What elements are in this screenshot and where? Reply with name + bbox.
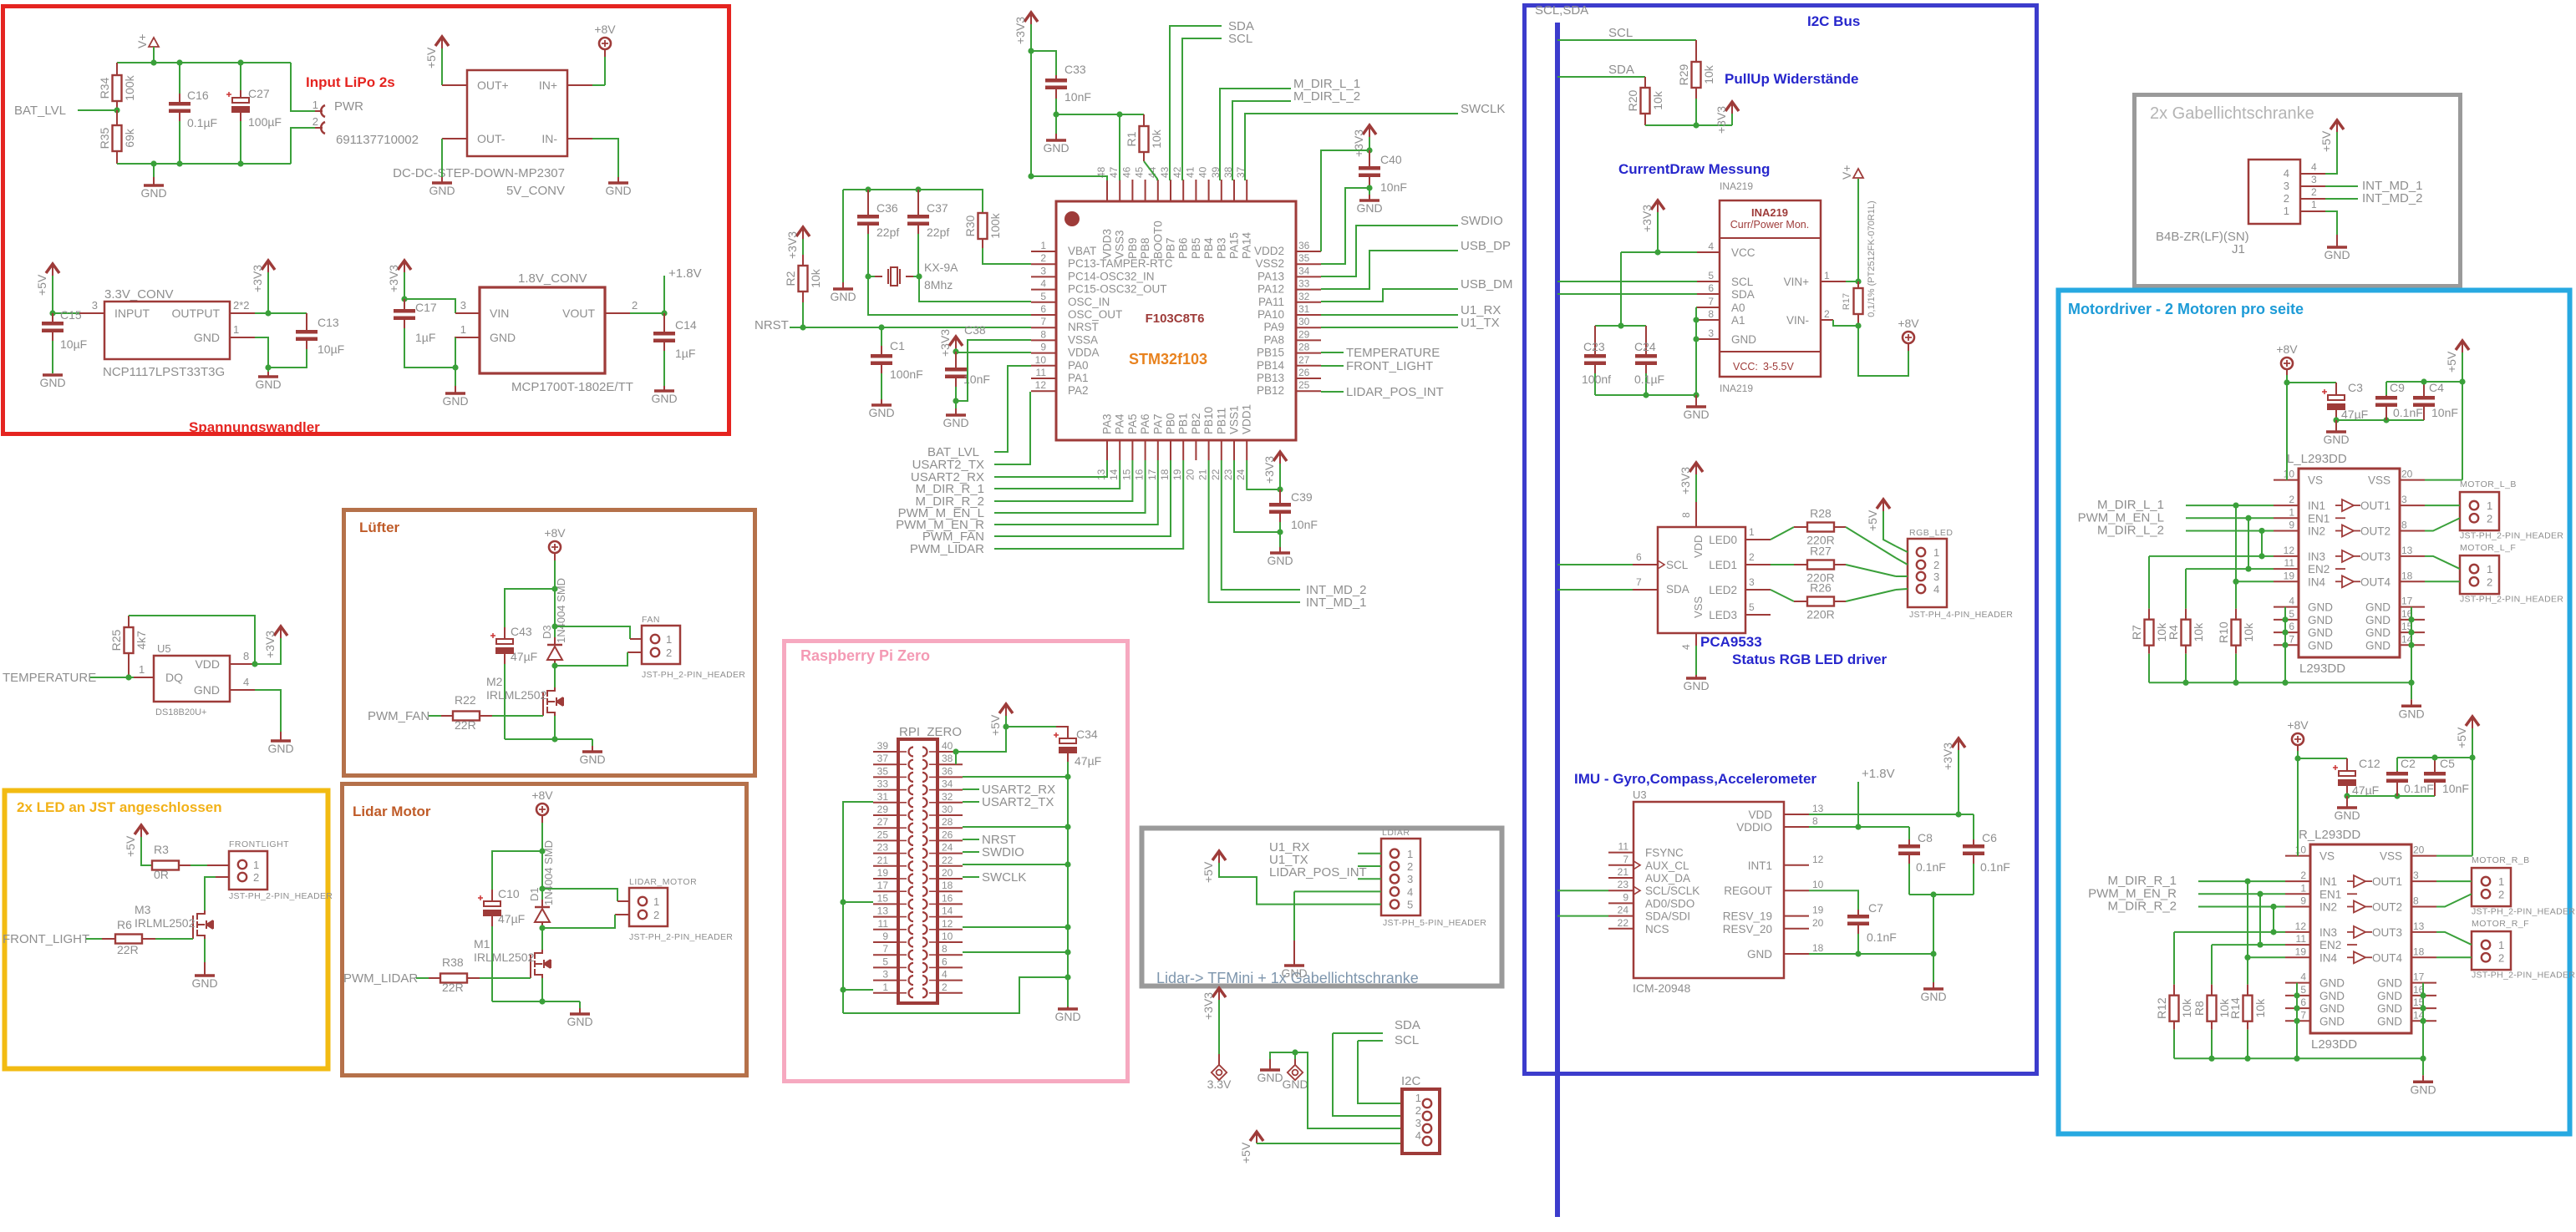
svg-text:3: 3 (1749, 576, 1755, 588)
resistor R10 10k (2235, 581, 2237, 608)
svg-text:C37: C37 (927, 201, 948, 215)
wire OUT2 (2436, 894, 2472, 906)
svg-text:+5V: +5V (988, 714, 1002, 736)
wire GND pins left (2296, 983, 2298, 1059)
svg-text:JST-PH_2-PIN_HEADER: JST-PH_2-PIN_HEADER (229, 891, 333, 901)
svg-text:GND: GND (2308, 601, 2333, 614)
svg-text:12: 12 (1812, 854, 1824, 865)
svg-text:1N4004 SMD: 1N4004 SMD (555, 578, 567, 643)
svg-text:10µF: 10µF (60, 337, 87, 351)
svg-text:GND: GND (2308, 626, 2333, 639)
net NRST (963, 839, 979, 840)
svg-text:PB8: PB8 (1139, 237, 1151, 259)
svg-text:+5V: +5V (124, 835, 137, 857)
junction (1053, 111, 1059, 117)
supply +3V3 (1725, 102, 1739, 111)
junction (2459, 378, 2465, 384)
junction (2270, 904, 2276, 910)
supply +8V (1908, 344, 1909, 351)
junction (1003, 723, 1009, 729)
pin 21 PB10 (1208, 440, 1210, 460)
capacitor C27 (240, 63, 241, 90)
pin 19 (2274, 581, 2299, 582)
svg-text:19: 19 (2284, 570, 2295, 581)
svg-text:R28: R28 (1810, 507, 1832, 520)
svg-text:C6: C6 (1982, 831, 1997, 844)
svg-text:19: 19 (2295, 946, 2307, 957)
junction (916, 273, 922, 279)
wire (542, 889, 617, 901)
wire (2261, 530, 2263, 555)
pin 32 PA11 (1296, 302, 1321, 303)
pin 5 (873, 966, 898, 968)
svg-text:20: 20 (2413, 844, 2425, 856)
wire OUT3 (2436, 932, 2472, 945)
svg-text:VCC: VCC (1731, 246, 1755, 259)
svg-text:INT_MD_2: INT_MD_2 (2362, 191, 2423, 205)
pin 9 (2285, 905, 2310, 907)
junction (865, 273, 871, 279)
net U1_TX (1321, 327, 1458, 328)
svg-text:R30: R30 (963, 215, 977, 236)
ground (441, 177, 443, 183)
junction (1693, 392, 1699, 398)
svg-text:GND: GND (1054, 1010, 1080, 1023)
wire (1595, 325, 1646, 327)
svg-text:INT1: INT1 (1748, 859, 1772, 872)
junction (2282, 680, 2288, 686)
junction (2383, 417, 2389, 423)
pin 44 BOOT0 (1157, 180, 1159, 201)
svg-text:LIDAR_POS_INT: LIDAR_POS_INT (1346, 385, 1444, 399)
wire IN3 (2174, 931, 2285, 933)
svg-text:3.3V: 3.3V (1207, 1077, 1232, 1091)
pin 7 SDA (1633, 589, 1658, 591)
buffer triangle (2354, 900, 2365, 912)
svg-text:10k: 10k (1150, 129, 1163, 149)
transistor M2 IRLML2502 (554, 666, 556, 687)
capacitor C38 (955, 352, 957, 368)
pin 8 VSSA (1031, 339, 1056, 341)
capacitor 10nF (2434, 758, 2436, 772)
svg-text:16: 16 (942, 892, 953, 904)
pin 40 (937, 751, 963, 753)
svg-text:39: 39 (877, 740, 889, 752)
ground (267, 368, 269, 372)
svg-text:7: 7 (1708, 296, 1714, 307)
wire pin1 (2325, 211, 2337, 235)
svg-text:GND: GND (1257, 1071, 1283, 1084)
svg-text:KX-9A: KX-9A (924, 261, 958, 274)
svg-text:PB6: PB6 (1177, 237, 1190, 259)
crystal Q1 KX-9A 8Mhz (888, 267, 900, 286)
junction (2282, 629, 2288, 635)
svg-text:3: 3 (1040, 265, 1046, 276)
svg-text:C40: C40 (1380, 153, 1402, 166)
pin 32 (937, 802, 963, 804)
pin 19 (2285, 956, 2310, 958)
capacitor C37 (917, 190, 919, 215)
svg-text:100k: 100k (988, 212, 1002, 238)
svg-text:AD0/SDO: AD0/SDO (1645, 897, 1694, 910)
supply +3V3 (1651, 200, 1664, 210)
wire pin VIN (404, 299, 455, 313)
svg-text:FRONT_LIGHT: FRONT_LIGHT (3, 932, 89, 946)
svg-text:10k: 10k (1651, 90, 1664, 110)
junction (1064, 824, 1070, 829)
junction (237, 59, 243, 65)
wire (255, 638, 281, 664)
pin 20 (2400, 479, 2425, 481)
wire pin1 (843, 989, 873, 991)
svg-text:14: 14 (942, 905, 953, 917)
svg-text:V+: V+ (135, 33, 149, 48)
supply +3V3 (1273, 452, 1287, 461)
svg-text:LED2: LED2 (1709, 584, 1737, 596)
svg-text:17: 17 (2413, 971, 2425, 983)
wire (1896, 589, 1908, 590)
capacitor C17 (404, 299, 405, 309)
capacitor C43 47µF (504, 627, 506, 639)
svg-text:C17: C17 (415, 301, 437, 314)
pin 36 VDD2 (1296, 251, 1321, 252)
pin 8 (2400, 530, 2425, 531)
junction (237, 160, 243, 166)
pin 4 (2285, 982, 2310, 984)
node +1.8V (663, 276, 665, 313)
pin 14 PA4 (1119, 440, 1120, 460)
pin 5 SCL (1697, 281, 1720, 282)
svg-text:19: 19 (1812, 905, 1824, 916)
pin 20 RESV_20 (1784, 928, 1809, 930)
wire pin22 to rail (963, 864, 1068, 865)
svg-text:R34: R34 (98, 77, 111, 99)
svg-text:GND: GND (2377, 1002, 2402, 1015)
svg-text:12: 12 (2284, 545, 2295, 556)
pin 1 LED0 (1745, 539, 1771, 540)
svg-text:MOTOR_R_B: MOTOR_R_B (2472, 855, 2530, 865)
svg-text:4: 4 (1415, 1129, 1421, 1142)
pin 10 PA0 (1031, 365, 1056, 367)
pin 40 PB4 (1208, 180, 1210, 201)
pin 2 PC13-TAMPER-RTC (1031, 263, 1056, 265)
svg-text:M_DIR_L_2: M_DIR_L_2 (1293, 89, 1360, 104)
junction (2420, 1005, 2426, 1011)
pin 28 PB15 (1296, 352, 1321, 354)
svg-text:13: 13 (877, 905, 889, 917)
wire A0/A1/GND tie (1696, 307, 1697, 308)
net U1_RX (1358, 853, 1381, 854)
pin 9 VDDA (1031, 352, 1056, 354)
supply +3V3 (398, 261, 411, 270)
svg-text:17: 17 (1146, 469, 1158, 480)
wire (627, 651, 642, 653)
pin 11 FSYNC (1608, 852, 1633, 854)
wire IN4 (2248, 956, 2285, 958)
pin 1 DQ (129, 677, 134, 678)
junction (2244, 955, 2250, 961)
wire EN2 (2186, 568, 2274, 570)
junction (551, 736, 557, 742)
pin 3 PC14-OSC32_IN (1031, 276, 1056, 277)
svg-text:IN+: IN+ (539, 79, 557, 92)
svg-text:10k: 10k (2180, 998, 2193, 1018)
wire IN1 (2186, 504, 2274, 506)
svg-text:FAN: FAN (642, 615, 660, 625)
resistor R17 shunt (1857, 281, 1859, 288)
svg-text:2: 2 (312, 115, 318, 128)
svg-text:IRLML2502: IRLML2502 (486, 688, 547, 702)
net USB_DM (1321, 289, 1458, 302)
junction (2408, 680, 2414, 686)
svg-text:41: 41 (1184, 166, 1196, 178)
svg-text:CurrentDraw Messung: CurrentDraw Messung (1618, 161, 1770, 177)
svg-text:Input LiPo 2s: Input LiPo 2s (306, 74, 395, 90)
wire (1369, 137, 1370, 150)
pin 22 (937, 865, 963, 867)
svg-text:40: 40 (1197, 166, 1209, 178)
junction (2270, 929, 2276, 935)
net PWM_M_EN_R (994, 460, 1158, 525)
pin 7 (2274, 644, 2299, 646)
junction (2257, 941, 2263, 947)
wire GND pins right (2411, 607, 2412, 683)
svg-text:10k: 10k (1702, 64, 1715, 84)
pin 33 PA12 (1296, 289, 1321, 291)
svg-text:1: 1 (1407, 848, 1413, 860)
wire (554, 716, 556, 739)
wire (2397, 757, 2472, 758)
svg-text:1: 1 (2300, 882, 2306, 894)
svg-text:1: 1 (460, 323, 466, 336)
wire (2386, 381, 2462, 383)
svg-text:OUT4: OUT4 (2372, 951, 2402, 964)
resistor R22 22R (453, 712, 480, 721)
svg-text:GND: GND (194, 331, 220, 344)
net SDA wire (1557, 293, 1697, 295)
wire GND pins left (2284, 607, 2286, 683)
svg-text:VSSA: VSSA (1068, 333, 1098, 346)
svg-text:9: 9 (2300, 895, 2306, 906)
svg-text:2: 2 (942, 981, 948, 993)
wire (1358, 1041, 1402, 1103)
wire (1896, 558, 1908, 565)
wire (1270, 1052, 1295, 1059)
wire OUT2 (2425, 518, 2460, 530)
wire (505, 738, 592, 740)
svg-text:+8V: +8V (531, 788, 553, 802)
svg-text:IN1: IN1 (2319, 875, 2337, 888)
svg-text:PB11: PB11 (1215, 408, 1227, 434)
wire GND pins right (2422, 983, 2424, 1059)
junction (953, 398, 958, 403)
svg-text:GND: GND (140, 186, 166, 200)
junction (539, 848, 545, 854)
junction (1028, 173, 1034, 179)
junction (1292, 1049, 1298, 1055)
pin 12 (2285, 931, 2310, 933)
pin 4 (937, 980, 963, 981)
svg-text:38: 38 (942, 753, 953, 764)
junction (1618, 322, 1623, 328)
svg-text:PA3: PA3 (1101, 413, 1114, 434)
wire VS (2286, 369, 2288, 375)
supply +3V3 (1212, 988, 1226, 997)
resistor R12 10k (2173, 932, 2175, 985)
svg-text:PB13: PB13 (1257, 372, 1284, 384)
svg-text:NCS: NCS (1645, 923, 1669, 935)
junction (252, 661, 257, 667)
pin 18 PB0 (1170, 440, 1171, 460)
svg-text:47µF: 47µF (2341, 408, 2368, 421)
svg-text:+8V: +8V (2287, 718, 2309, 732)
svg-text:RGB_LED: RGB_LED (1909, 528, 1954, 538)
wire (153, 47, 155, 63)
svg-text:C36: C36 (876, 201, 898, 215)
svg-text:8: 8 (2401, 519, 2407, 530)
junction (1654, 249, 1660, 255)
svg-text:47: 47 (1108, 166, 1120, 178)
wire IN2 (2198, 905, 2285, 907)
svg-text:GND: GND (943, 416, 968, 429)
svg-text:R14: R14 (2228, 997, 2242, 1019)
svg-text:GND: GND (1356, 201, 1382, 215)
svg-text:1: 1 (253, 859, 259, 871)
junction (2420, 992, 2426, 998)
svg-text:NCP1117LPST33T3G: NCP1117LPST33T3G (103, 365, 225, 379)
svg-text:PA2: PA2 (1068, 384, 1089, 397)
resistor R29 10k (1695, 40, 1697, 62)
wire OSC_OUT (868, 276, 1031, 315)
svg-text:TEMPERATURE: TEMPERATURE (3, 671, 96, 685)
capacitor C23 100nf (1594, 326, 1596, 354)
svg-text:C43: C43 (511, 625, 532, 638)
resistor R26 220R (1771, 590, 1794, 601)
svg-text:4: 4 (1708, 241, 1714, 252)
pin 20 (2411, 855, 2436, 857)
svg-text:PA6: PA6 (1139, 413, 1151, 434)
svg-text:10: 10 (1035, 354, 1047, 366)
capacitor 10nF (2423, 382, 2425, 396)
wire VIN+ (1846, 281, 1858, 282)
svg-text:VDD: VDD (1748, 809, 1772, 821)
wire pin4 (2325, 132, 2337, 174)
svg-text:U3: U3 (1633, 788, 1647, 801)
svg-text:VDD1: VDD1 (1241, 404, 1253, 434)
junction (2420, 1018, 2426, 1024)
junction (2421, 378, 2426, 384)
junction (2245, 515, 2251, 521)
svg-text:EN1: EN1 (2319, 888, 2341, 900)
svg-text:EN2: EN2 (2308, 563, 2330, 575)
ground (1695, 395, 1697, 406)
svg-text:18: 18 (942, 880, 953, 891)
wire IN1 (2198, 880, 2285, 882)
svg-text:IN-: IN- (541, 132, 557, 145)
pin 3 (873, 980, 898, 981)
svg-text:OSC_OUT: OSC_OUT (1068, 308, 1122, 321)
svg-text:19: 19 (877, 867, 889, 879)
svg-text:GND: GND (1731, 333, 1756, 346)
svg-text:I2C Bus: I2C Bus (1807, 13, 1860, 29)
svg-text:JST-PH_2-PIN_HEADER: JST-PH_2-PIN_HEADER (2460, 530, 2563, 540)
svg-text:4: 4 (2300, 971, 2306, 983)
pin 31 (873, 802, 898, 804)
svg-text:GND: GND (579, 753, 605, 766)
ground (592, 739, 593, 746)
svg-text:21: 21 (1197, 469, 1209, 480)
wire (441, 48, 443, 85)
svg-text:10k: 10k (2192, 622, 2205, 642)
svg-text:7: 7 (1040, 316, 1046, 327)
svg-text:Status RGB LED driver: Status RGB LED driver (1732, 651, 1888, 667)
svg-text:OUT1: OUT1 (2360, 499, 2391, 512)
svg-text:VCC:: VCC: (1733, 361, 1758, 373)
wire SDA/SDI (1557, 915, 1608, 917)
wire (2247, 881, 2248, 957)
pin 10 (2274, 479, 2299, 481)
capacitor C24 0.1µF (1645, 326, 1647, 354)
svg-text:D1: D1 (528, 887, 541, 901)
svg-text:24: 24 (942, 842, 953, 854)
junction (2333, 417, 2339, 423)
wire (2287, 382, 2336, 383)
ground (617, 177, 619, 183)
svg-text:GND: GND (255, 378, 281, 391)
capacitor C39 (1279, 489, 1281, 503)
section box Raspberry Pi Zero (pink) (785, 641, 1128, 1082)
section box I2C Bus (blue) (1525, 6, 2037, 1074)
junction (2408, 616, 2414, 622)
net M_DIR_L_1 (1220, 89, 1291, 180)
svg-text:+1.8V: +1.8V (668, 266, 702, 281)
svg-text:11: 11 (2296, 933, 2307, 945)
svg-text:11: 11 (878, 918, 889, 930)
junction (2408, 642, 2414, 648)
net USART2_TX (963, 801, 979, 803)
svg-text:10nF: 10nF (2431, 406, 2458, 419)
junction (2394, 793, 2400, 799)
svg-text:1: 1 (139, 663, 145, 676)
svg-text:VDDIO: VDDIO (1736, 821, 1772, 834)
svg-text:GND: GND (2377, 977, 2402, 990)
junction (539, 998, 545, 1004)
svg-text:LIDAR_POS_INT: LIDAR_POS_INT (1269, 865, 1367, 880)
pin 42 PB6 (1182, 180, 1184, 201)
wire OUT4 (2436, 956, 2472, 958)
junction (1955, 811, 1961, 817)
svg-text:GND: GND (2365, 614, 2391, 626)
pin 29 PA8 (1296, 339, 1321, 341)
pin 24 VDD1 (1246, 440, 1247, 460)
pin 7 AUX_CL (1608, 864, 1633, 866)
ground (204, 962, 206, 975)
svg-text:R7: R7 (2130, 625, 2143, 640)
svg-text:20: 20 (1184, 469, 1196, 480)
svg-text:F103C8T6: F103C8T6 (1146, 312, 1205, 326)
svg-text:1.8V_CONV: 1.8V_CONV (518, 271, 587, 286)
ground (2335, 420, 2337, 431)
pin 12 INT1 (1784, 864, 1809, 866)
svg-text:PullUp Widerstände: PullUp Widerstände (1725, 71, 1858, 87)
svg-text:IN1: IN1 (2308, 499, 2325, 512)
pin 15 (873, 903, 898, 905)
svg-text:23: 23 (1222, 469, 1234, 480)
svg-text:3: 3 (2284, 180, 2289, 192)
pin 8 (2411, 905, 2436, 907)
pin 8 (937, 954, 963, 956)
pin 35 VSS2 (1296, 263, 1321, 265)
